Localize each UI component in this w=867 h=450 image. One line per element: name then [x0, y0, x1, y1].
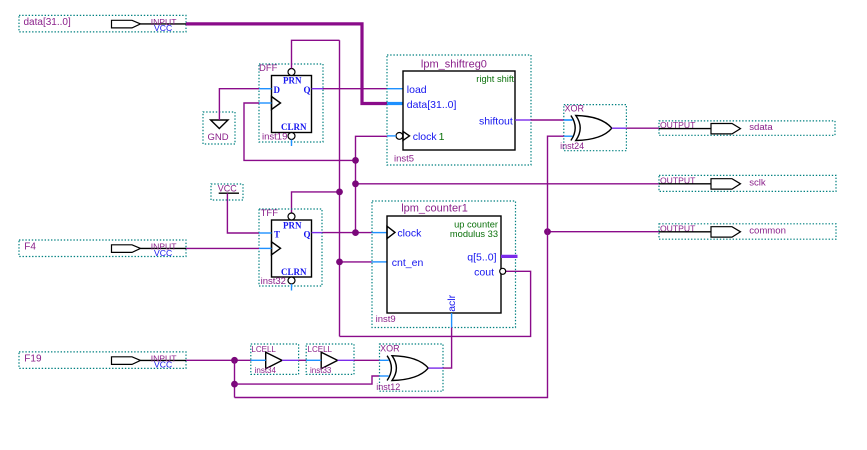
- svg-text:XOR: XOR: [565, 104, 585, 114]
- svg-text:F4: F4: [24, 242, 36, 253]
- lcell inst34: [251, 344, 299, 375]
- svg-text:VCC: VCC: [154, 360, 172, 370]
- svg-text:cout: cout: [474, 267, 494, 279]
- wire: DFF Q to shiftreg load: [323, 88, 387, 90]
- xor24 upper input stub: [564, 119, 572, 121]
- svg-text:inst9: inst9: [376, 314, 396, 325]
- lpm_shiftreg0 inst5: [387, 55, 531, 165]
- tff T input stub: [259, 232, 272, 234]
- wire: LCELL33 out to XOR12: [354, 359, 380, 361]
- tff CLRN stub: [291, 284, 293, 291]
- dff inst19 clock input stub: [259, 102, 272, 104]
- counter cnt_en input stub: [372, 261, 387, 263]
- wire bus: data[31..0] to lpm_shiftreg0 data: [186, 24, 387, 104]
- svg-text:sclk: sclk: [749, 177, 766, 188]
- dff inst19 Q output stub: [312, 88, 324, 90]
- dff inst19 PRN bubble: [288, 69, 295, 76]
- wire: TFF PRN branch: [292, 192, 340, 213]
- tff PRN bubble: [288, 213, 295, 220]
- svg-text:VCC: VCC: [218, 184, 238, 194]
- svg-text:GND: GND: [208, 132, 229, 143]
- shiftreg clock input stub: [387, 135, 396, 137]
- xor24 output stub: [612, 127, 627, 129]
- wire: F19 branch down: [234, 360, 236, 397]
- wire: bottom run to cout: [340, 271, 531, 336]
- junction at cnt_en branch: [336, 259, 343, 266]
- shiftreg clock triangle: [403, 131, 410, 140]
- svg-text:inst32: inst32: [261, 276, 286, 287]
- xor12 output stub: [428, 367, 443, 369]
- svg-text:up counter: up counter: [454, 219, 498, 229]
- svg-text:inst12: inst12: [376, 382, 400, 392]
- svg-text:common: common: [749, 225, 786, 236]
- svg-text:shiftout: shiftout: [479, 115, 513, 127]
- tff clock input stub: [259, 247, 272, 249]
- wire: PRN/cout net (DFF PRN riser and top run): [292, 40, 340, 68]
- junction clock net at counter clock line: [352, 229, 359, 236]
- svg-text:inst33: inst33: [310, 366, 332, 375]
- wire: branch to XOR12 lower input: [235, 376, 380, 384]
- svg-text:inst5: inst5: [394, 154, 414, 165]
- svg-text:VCC: VCC: [154, 23, 172, 33]
- lpm_counter1 inst9: [372, 201, 518, 328]
- wire: cnt_en branch: [340, 261, 372, 263]
- tff clock triangle: [272, 242, 281, 255]
- xor24 input stubs: [564, 119, 573, 121]
- tff inst32: [259, 208, 322, 291]
- svg-text:sdata: sdata: [749, 122, 773, 133]
- svg-text:PRN: PRN: [283, 220, 302, 230]
- xor gate inst12: [376, 343, 443, 392]
- svg-text:VCC: VCC: [154, 248, 172, 258]
- counter clock triangle: [387, 226, 395, 238]
- counter q[5..0] bus output stub: [501, 255, 518, 258]
- input pin F4: [19, 240, 186, 258]
- svg-text:LCELL: LCELL: [308, 345, 333, 354]
- xor gate inst24: [560, 104, 626, 151]
- svg-text:DFF: DFF: [259, 63, 278, 74]
- junction on F19 branch: [231, 381, 238, 388]
- svg-text:modulus 33: modulus 33: [450, 229, 498, 239]
- counter aclr input stub: [451, 313, 453, 328]
- svg-text:data[31..0]: data[31..0]: [24, 17, 71, 28]
- wire: shiftout to XOR inst24: [531, 119, 564, 121]
- junction DFF clock branch: [352, 157, 359, 164]
- counter cout bubble: [500, 268, 506, 274]
- output pin sdata: [659, 120, 835, 135]
- vcc symbol: [211, 184, 243, 200]
- svg-text:TFF: TFF: [261, 208, 279, 219]
- svg-text:aclr: aclr: [446, 294, 458, 311]
- svg-text:inst24: inst24: [560, 141, 584, 151]
- junction on F19 line: [231, 357, 238, 364]
- svg-text:PRN: PRN: [283, 76, 302, 86]
- junction sclk branch: [352, 180, 359, 187]
- dff inst19 clock triangle: [272, 97, 281, 110]
- wire: LCELL34 out to LCELL33 in: [299, 359, 307, 361]
- svg-text:XOR: XOR: [380, 343, 400, 353]
- wire: PRN/cout net vertical x=339.5: [339, 40, 341, 336]
- xor24 shape: [571, 116, 575, 141]
- dff inst19 CLRN stub: [291, 140, 293, 147]
- svg-text:LCELL: LCELL: [251, 345, 276, 354]
- svg-text:lpm_shiftreg0: lpm_shiftreg0: [421, 59, 487, 71]
- wire: sclk line to OUTPUT sclk: [356, 183, 660, 185]
- dff inst19 D input stub: [259, 88, 272, 90]
- input pin data[31..0]: [19, 15, 186, 33]
- svg-text:1: 1: [439, 131, 445, 143]
- dff inst19 CLRN bubble: [288, 133, 295, 140]
- svg-text:q[5..0]: q[5..0]: [467, 252, 496, 264]
- wire: clock net vertical x=355.5: [356, 136, 388, 232]
- dff inst19: [259, 63, 323, 146]
- svg-text:inst19: inst19: [262, 132, 287, 143]
- svg-text:F19: F19: [24, 353, 42, 364]
- svg-text:Q: Q: [304, 85, 311, 95]
- shiftreg shiftout output stub: [515, 119, 531, 121]
- shiftreg clock bubble: [396, 133, 403, 140]
- wire: cout riser / common net junction at x=547.5: [548, 231, 660, 233]
- ground symbol: [203, 112, 235, 144]
- svg-text:inst34: inst34: [255, 366, 277, 375]
- svg-text:Q: Q: [304, 230, 311, 240]
- xor12 shape: [387, 356, 391, 381]
- svg-text:clock: clock: [413, 131, 438, 143]
- input pin F19: [19, 352, 186, 370]
- wire: F19 to LCELL inst34: [186, 359, 251, 361]
- svg-text:CLRN: CLRN: [281, 122, 307, 132]
- output pin common: [659, 223, 836, 239]
- xor12 input stubs: [380, 359, 389, 361]
- tff Q output stub: [312, 232, 323, 234]
- svg-text:lpm_counter1: lpm_counter1: [401, 203, 468, 215]
- wire bus stub (blue): shiftreg data input: [387, 102, 403, 105]
- wire: TFF Q to counter clock: [322, 232, 372, 234]
- svg-text:clock: clock: [397, 228, 422, 240]
- wire: XOR12 out to counter aclr: [443, 328, 452, 369]
- tff CLRN bubble: [288, 277, 295, 284]
- wire: F4 to TFF clock: [186, 247, 259, 249]
- lcell inst33: [306, 344, 354, 375]
- svg-text:data[31..0]: data[31..0]: [407, 99, 457, 111]
- svg-text:D: D: [274, 85, 281, 95]
- junction at TFF PRN branch: [336, 189, 343, 196]
- wire: GND to DFF D: [219, 89, 259, 120]
- output pin sclk: [659, 175, 836, 191]
- wire: bottom run to common/xor24 riser: [235, 136, 564, 397]
- counter clock input stub: [372, 232, 387, 234]
- svg-text:T: T: [274, 230, 280, 240]
- wire: DFF clock branch: [244, 103, 356, 160]
- svg-text:load: load: [407, 84, 427, 96]
- shiftreg load input stub: [387, 88, 403, 90]
- wire: XOR24 out to OUTPUT sdata: [626, 127, 659, 129]
- svg-text:cnt_en: cnt_en: [392, 257, 424, 269]
- wire: VCC to TFF T: [227, 193, 259, 233]
- svg-text:right shift: right shift: [476, 74, 514, 84]
